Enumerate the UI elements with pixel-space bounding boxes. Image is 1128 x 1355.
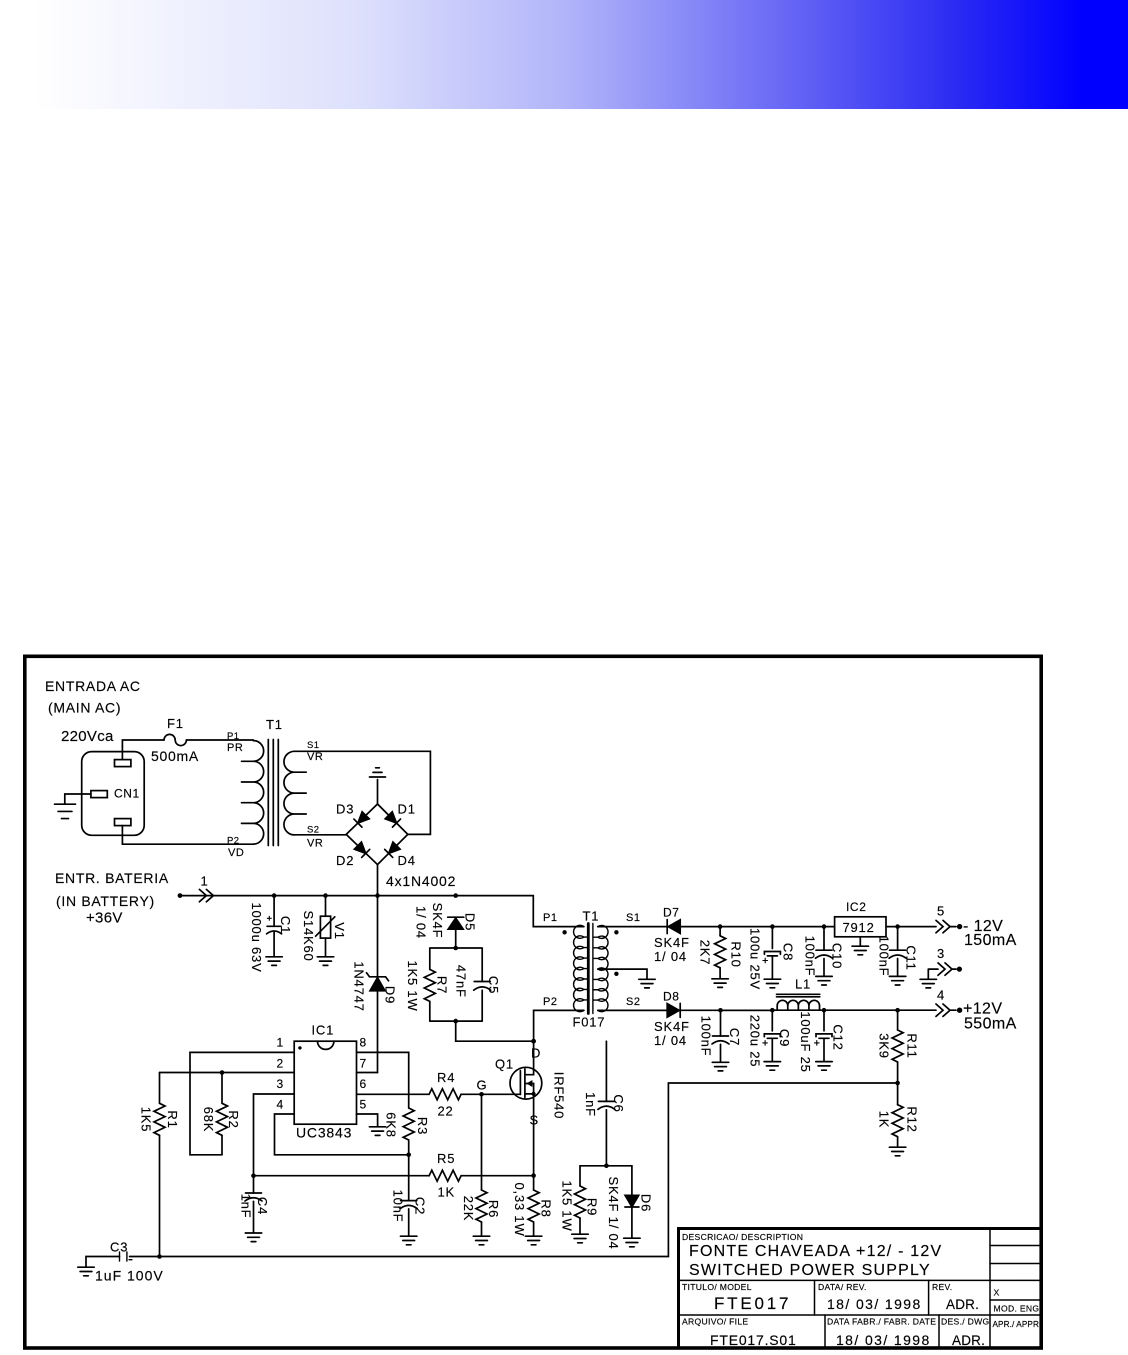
resistor R1 — [159, 1073, 161, 1104]
svg-text:MOD. ENG.: MOD. ENG. — [994, 1304, 1043, 1314]
diode D4 — [385, 842, 401, 858]
svg-text:C7: C7 — [727, 1028, 742, 1046]
diode D5 — [448, 917, 464, 929]
resistor R4 — [429, 1089, 461, 1100]
node battery input terminal — [178, 893, 183, 898]
capacitor C5 — [474, 982, 491, 991]
wire F017 P2 to drain node — [534, 1010, 584, 1041]
svg-text:5: 5 — [937, 904, 945, 919]
title block — [679, 1229, 1042, 1349]
resistor R12 — [897, 1083, 899, 1105]
svg-text:IRF540: IRF540 — [552, 1072, 567, 1119]
transformer F017 labels — [543, 909, 640, 1030]
svg-text:220Vca: 220Vca — [61, 728, 114, 745]
svg-text:S2: S2 — [626, 996, 640, 1008]
svg-text:S14K60: S14K60 — [301, 910, 316, 961]
svg-text:C3: C3 — [110, 1240, 128, 1255]
svg-text:1K: 1K — [438, 1185, 456, 1200]
svg-text:1000u 63V: 1000u 63V — [249, 902, 264, 972]
transformer T1 (F017) primary winding — [574, 925, 589, 1011]
wire bridge top to ground — [377, 780, 379, 805]
svg-text:1K5 1W: 1K5 1W — [405, 960, 420, 1011]
transformer T1 (F017) secondary S2 winding — [594, 968, 608, 1012]
svg-text:VR: VR — [307, 751, 323, 763]
wire D8 to L1 — [680, 1009, 772, 1011]
svg-text:IC2: IC2 — [846, 900, 866, 914]
resistor R2 — [221, 1073, 223, 1104]
svg-text:1/ 04: 1/ 04 — [654, 949, 687, 964]
wire L1 to output 4 — [824, 1009, 936, 1011]
wire pin 7 to D9 line — [357, 1072, 378, 1074]
wire feedback line to bottom rail — [130, 1083, 898, 1257]
svg-text:R9: R9 — [585, 1198, 600, 1216]
junction dots on -12V rail — [718, 924, 900, 929]
capacitor C3 — [120, 1252, 132, 1261]
node feedback junction — [895, 1081, 900, 1086]
svg-text:D4: D4 — [398, 853, 416, 868]
svg-text:R2: R2 — [226, 1110, 241, 1128]
transformer T1 secondary winding — [284, 751, 306, 835]
svg-text:1/ 04: 1/ 04 — [414, 906, 429, 939]
svg-text:1: 1 — [277, 1036, 284, 1050]
svg-text:2: 2 — [277, 1056, 284, 1070]
svg-text:7912: 7912 — [843, 920, 875, 935]
resistor R9 — [579, 1166, 581, 1186]
svg-text:SK4F 1/ 04: SK4F 1/ 04 — [606, 1176, 621, 1249]
svg-text:DES./ DWG: DES./ DWG — [941, 1317, 990, 1327]
wire pin 1 loop to R2 bottom — [190, 1052, 294, 1154]
ground at C3 — [78, 1267, 94, 1276]
svg-text:C8: C8 — [781, 943, 796, 961]
ground at CN1 — [55, 804, 76, 818]
wire C6 bottom to R9 and D6 — [580, 1165, 632, 1167]
inductor L1 — [772, 1000, 824, 1010]
ground under R9 — [572, 1234, 588, 1243]
svg-text:+36V: +36V — [86, 910, 123, 927]
capacitor C12 — [823, 1010, 825, 1031]
transformer T1 (F017) secondary S1 winding — [594, 925, 608, 970]
svg-text:D5: D5 — [463, 913, 478, 931]
svg-text:1nF: 1nF — [239, 1194, 254, 1219]
connector CN1 — [82, 752, 145, 836]
svg-text:550mA: 550mA — [964, 1016, 1017, 1033]
transformer T1 primary winding — [241, 741, 263, 844]
svg-text:IC1: IC1 — [312, 1023, 335, 1038]
svg-text:22K: 22K — [461, 1196, 476, 1222]
svg-text:1K5 1W: 1K5 1W — [560, 1180, 575, 1231]
svg-text:(IN BATTERY): (IN BATTERY) — [56, 893, 155, 909]
svg-text:C11: C11 — [904, 945, 919, 970]
svg-text:ENTR. BATERIA: ENTR. BATERIA — [55, 870, 169, 886]
ground under C4 — [245, 1233, 261, 1242]
diode D1 — [385, 811, 401, 827]
node G gate junction — [479, 1092, 484, 1097]
ground at pin 5 — [369, 1127, 385, 1136]
diode D8 — [667, 1003, 680, 1017]
svg-text:C5: C5 — [486, 976, 501, 994]
svg-text:8: 8 — [360, 1036, 367, 1050]
svg-text:1nF: 1nF — [583, 1092, 598, 1117]
svg-text:4x1N4002: 4x1N4002 — [386, 873, 456, 889]
svg-text:D9: D9 — [382, 986, 397, 1004]
ground under C8 — [764, 979, 780, 988]
snubber loop wires R7/C5 — [430, 948, 482, 1021]
wire CN1 top pin to fuse — [122, 740, 164, 760]
connector arrow 4 (+12V output) — [936, 1004, 950, 1016]
ground under C7 — [712, 1062, 728, 1071]
svg-text:C2: C2 — [413, 1197, 428, 1215]
wire CN1 bottom pin to T1 primary P2 — [122, 826, 253, 845]
svg-text:CN1: CN1 — [114, 787, 140, 801]
svg-text:5: 5 — [360, 1098, 367, 1112]
svg-text:S1: S1 — [626, 912, 640, 924]
svg-text:R1: R1 — [165, 1110, 180, 1128]
top blue gradient banner — [0, 0, 1128, 109]
wire pin 8 to R3 — [357, 1052, 409, 1108]
svg-text:DESCRICAO/ DESCRIPTION: DESCRICAO/ DESCRIPTION — [682, 1232, 803, 1242]
resistor R8 — [533, 1176, 535, 1190]
ground under V1 — [317, 957, 333, 966]
svg-text:ENTRADA AC: ENTRADA AC — [45, 678, 141, 694]
ground above bridge (inverted) — [370, 768, 386, 777]
svg-text:F017: F017 — [573, 1015, 606, 1030]
svg-text:C12: C12 — [831, 1024, 846, 1050]
svg-text:R8: R8 — [539, 1199, 554, 1217]
svg-text:R3: R3 — [415, 1117, 430, 1135]
svg-text:D3: D3 — [336, 802, 354, 817]
wire F017 center tap to ground — [598, 969, 647, 979]
svg-text:ADR.: ADR. — [946, 1297, 979, 1312]
svg-text:R4: R4 — [437, 1070, 455, 1085]
svg-text:FTE017.S01: FTE017.S01 — [710, 1332, 797, 1348]
resistor R10 — [719, 927, 721, 936]
svg-text:S2: S2 — [307, 825, 319, 836]
capacitor C1 — [273, 896, 275, 927]
svg-text:SK4F: SK4F — [654, 935, 690, 950]
diode D3 — [354, 811, 370, 827]
svg-text:P1: P1 — [543, 912, 557, 924]
svg-text:X: X — [994, 1288, 1000, 1298]
wire pin 5 to ground — [357, 1114, 378, 1127]
ground under R6 — [473, 1236, 489, 1245]
ground at output 3 — [920, 979, 936, 988]
C3 labels — [95, 1240, 164, 1284]
svg-text:18/ 03/ 1998: 18/ 03/ 1998 — [827, 1296, 922, 1312]
svg-text:D: D — [531, 1046, 541, 1061]
svg-text:SWITCHED POWER SUPPLY: SWITCHED POWER SUPPLY — [689, 1262, 931, 1279]
wire IC2 to output 5 — [886, 926, 936, 928]
svg-text:Q1: Q1 — [495, 1057, 514, 1072]
svg-text:100u 25V: 100u 25V — [748, 928, 763, 990]
svg-text:SK4F: SK4F — [654, 1019, 690, 1034]
svg-text:T1: T1 — [583, 909, 600, 924]
svg-text:18/ 03/ 1998: 18/ 03/ 1998 — [836, 1332, 931, 1348]
D8 labels — [654, 990, 690, 1049]
bridge rectifier diamond wires — [346, 804, 408, 865]
capacitor C6 — [605, 1041, 607, 1101]
connector arrow 5 (-12V output) — [936, 920, 950, 932]
svg-text:150mA: 150mA — [964, 932, 1017, 949]
svg-text:P2: P2 — [227, 836, 239, 847]
svg-text:500mA: 500mA — [151, 748, 199, 764]
battery input labels — [55, 870, 209, 927]
svg-text:1K: 1K — [877, 1111, 892, 1129]
junction dots around L1 — [770, 1008, 775, 1013]
svg-text:47nF: 47nF — [454, 965, 469, 998]
svg-text:4: 4 — [277, 1098, 284, 1112]
svg-text:DATA FABR./ FABR. DATE: DATA FABR./ FABR. DATE — [827, 1317, 936, 1327]
wire T1 S2 to bridge left corner — [294, 834, 346, 836]
wire D7 to IC2 — [680, 926, 834, 928]
ground under R8 — [525, 1236, 541, 1245]
diode D2 — [354, 842, 370, 858]
node source junction — [531, 1173, 536, 1178]
capacitor C4 — [253, 1176, 255, 1193]
svg-text:3: 3 — [937, 946, 945, 961]
capacitor C10 — [823, 927, 825, 951]
Q1 labels — [477, 1046, 542, 1128]
wire sense line and resistor R5 — [254, 1175, 534, 1177]
resistor R6 — [481, 1094, 483, 1190]
svg-text:6: 6 — [360, 1077, 367, 1091]
fuse F1 — [164, 734, 186, 745]
ground under R10 — [712, 979, 728, 988]
svg-text:S: S — [530, 1113, 539, 1128]
svg-text:TITULO/ MODEL: TITULO/ MODEL — [682, 1282, 752, 1292]
wire S1 to D7 — [598, 926, 667, 928]
svg-text:6K8: 6K8 — [384, 1112, 399, 1138]
svg-text:1uF 100V: 1uF 100V — [95, 1268, 164, 1284]
wire bridge bottom to +36V rail — [377, 865, 379, 896]
svg-text:D6: D6 — [639, 1194, 654, 1212]
wire S2 to D8 — [598, 1009, 667, 1011]
IC1 UC3843 box — [294, 1041, 356, 1124]
transformer T1 core — [268, 740, 278, 846]
svg-text:1/ 04: 1/ 04 — [654, 1033, 687, 1048]
D7 labels — [654, 906, 690, 965]
svg-text:68K: 68K — [201, 1107, 216, 1133]
svg-text:SK4F: SK4F — [430, 903, 445, 939]
svg-text:3K9: 3K9 — [877, 1033, 892, 1059]
transformer F017 phase dots — [562, 930, 618, 976]
connector arrow 3 (common) — [928, 969, 938, 979]
svg-text:T1: T1 — [266, 717, 283, 732]
wire +12V rail C7 junction — [721, 1009, 773, 1011]
svg-text:1: 1 — [201, 874, 209, 889]
transformer T1 (F017) core — [587, 924, 590, 1014]
ground under C10 — [816, 976, 832, 985]
capacitor C2 — [408, 1155, 410, 1201]
svg-text:C10: C10 — [830, 943, 845, 969]
wire pin 2 to R1/R2 top — [160, 1072, 295, 1074]
svg-text:D1: D1 — [398, 802, 416, 817]
svg-text:ADR.: ADR. — [952, 1333, 985, 1348]
svg-text:1K5: 1K5 — [139, 1107, 154, 1133]
node R1 bottom on feedback rail — [157, 1254, 162, 1259]
capacitor C8 — [771, 927, 773, 949]
IC2 labels — [843, 900, 875, 935]
diode D6 — [631, 1166, 633, 1196]
resistor R11 — [897, 1010, 899, 1030]
svg-text:S1: S1 — [307, 740, 319, 751]
svg-text:22: 22 — [438, 1104, 454, 1119]
node C6 bottom junction — [604, 1164, 609, 1169]
ground under C1 — [266, 957, 282, 966]
zener diode D9 — [377, 896, 379, 977]
svg-text:VR: VR — [307, 838, 323, 850]
svg-text:R6: R6 — [486, 1200, 501, 1218]
IC1 labels — [296, 1023, 352, 1141]
svg-text:R11: R11 — [905, 1033, 920, 1058]
resistor R3 — [403, 1108, 414, 1140]
svg-text:DATA/ REV.: DATA/ REV. — [818, 1282, 867, 1292]
svg-text:0,33 1W: 0,33 1W — [512, 1182, 527, 1236]
svg-text:PR: PR — [227, 742, 243, 754]
svg-text:FONTE CHAVEADA +12/ - 12V: FONTE CHAVEADA +12/ - 12V — [689, 1243, 942, 1260]
wire CN1 middle pin to ground — [65, 794, 91, 804]
IC1 pin numbers — [277, 1036, 367, 1112]
connector arrow 1 — [199, 889, 213, 901]
svg-text:100uF 25: 100uF 25 — [798, 1011, 813, 1072]
svg-text:R10: R10 — [729, 941, 744, 967]
svg-text:100nF: 100nF — [803, 936, 818, 977]
R4 labels — [437, 1070, 455, 1119]
svg-text:G: G — [477, 1078, 488, 1093]
regulator IC2 7912 — [835, 917, 886, 937]
ground under C9 — [764, 1062, 780, 1071]
svg-text:R5: R5 — [437, 1151, 455, 1166]
wire pin 4 to R3/C2 node — [275, 1114, 409, 1155]
svg-text:F1: F1 — [167, 716, 184, 731]
ground under D6 — [624, 1238, 640, 1247]
wire snubber bottom to drain node — [456, 1021, 534, 1041]
svg-text:D8: D8 — [663, 990, 680, 1004]
transformer T1 labels — [227, 717, 323, 859]
ground under C12 — [816, 1062, 832, 1071]
svg-text:VD: VD — [228, 847, 244, 859]
capacitor C9 — [771, 1010, 773, 1031]
wire T1 S1 to bridge right corner — [294, 751, 430, 834]
svg-text:R12: R12 — [905, 1106, 920, 1132]
svg-text:P2: P2 — [543, 996, 557, 1008]
svg-text:R7: R7 — [434, 976, 449, 994]
svg-text:P1: P1 — [227, 731, 239, 742]
ground under IC2 — [852, 946, 868, 955]
svg-text:ARQUIVO/ FILE: ARQUIVO/ FILE — [682, 1317, 748, 1327]
node D (drain junction) — [531, 1039, 536, 1044]
svg-text:C1: C1 — [278, 916, 293, 934]
svg-text:10nF: 10nF — [391, 1190, 406, 1223]
svg-text:REV.: REV. — [932, 1282, 952, 1292]
capacitor C7 — [720, 1010, 722, 1036]
svg-text:2K7: 2K7 — [698, 940, 713, 966]
wire fuse to T1 primary P1 — [186, 739, 253, 741]
ground under C2 — [401, 1236, 417, 1245]
svg-text:APR./ APPR.: APR./ APPR. — [993, 1320, 1042, 1329]
svg-text:C6: C6 — [611, 1094, 626, 1112]
ground under R12 — [889, 1147, 905, 1156]
svg-text:7: 7 — [360, 1056, 367, 1070]
junction dots on +36V rail — [272, 893, 458, 898]
ground under C11 — [889, 976, 905, 985]
R5 labels — [437, 1151, 455, 1200]
svg-text:C9: C9 — [777, 1029, 792, 1047]
varistor V1 — [325, 896, 327, 917]
svg-text:220u 25: 220u 25 — [748, 1015, 763, 1068]
svg-text:FTE017: FTE017 — [714, 1294, 791, 1313]
ground at center tap — [639, 979, 655, 988]
diode D7 — [667, 920, 680, 934]
svg-text:100nF: 100nF — [877, 936, 892, 977]
svg-text:L1: L1 — [795, 977, 811, 992]
svg-text:4: 4 — [937, 988, 945, 1003]
schematic border frame — [25, 656, 1041, 1348]
svg-text:D7: D7 — [663, 906, 680, 920]
resistor R7 — [424, 969, 435, 1001]
svg-text:D2: D2 — [336, 853, 354, 868]
wire pin 6 gate drive — [357, 1093, 521, 1095]
MOSFET Q1 IRF540 — [510, 1041, 542, 1175]
svg-text:1N4747: 1N4747 — [351, 961, 366, 1011]
svg-text:C4: C4 — [255, 1197, 270, 1215]
svg-text:(MAIN AC): (MAIN AC) — [48, 700, 121, 716]
wire pin 3 to current sense line — [254, 1094, 295, 1176]
bridge labels — [336, 802, 456, 890]
main AC section labels — [45, 678, 199, 764]
wire +36V rail to transformer P1 — [180, 896, 584, 927]
svg-text:100nF: 100nF — [699, 1016, 714, 1057]
svg-text:3: 3 — [277, 1077, 284, 1091]
svg-text:UC3843: UC3843 — [296, 1125, 352, 1141]
svg-text:V1: V1 — [332, 922, 347, 940]
capacitor C11 — [897, 927, 899, 951]
